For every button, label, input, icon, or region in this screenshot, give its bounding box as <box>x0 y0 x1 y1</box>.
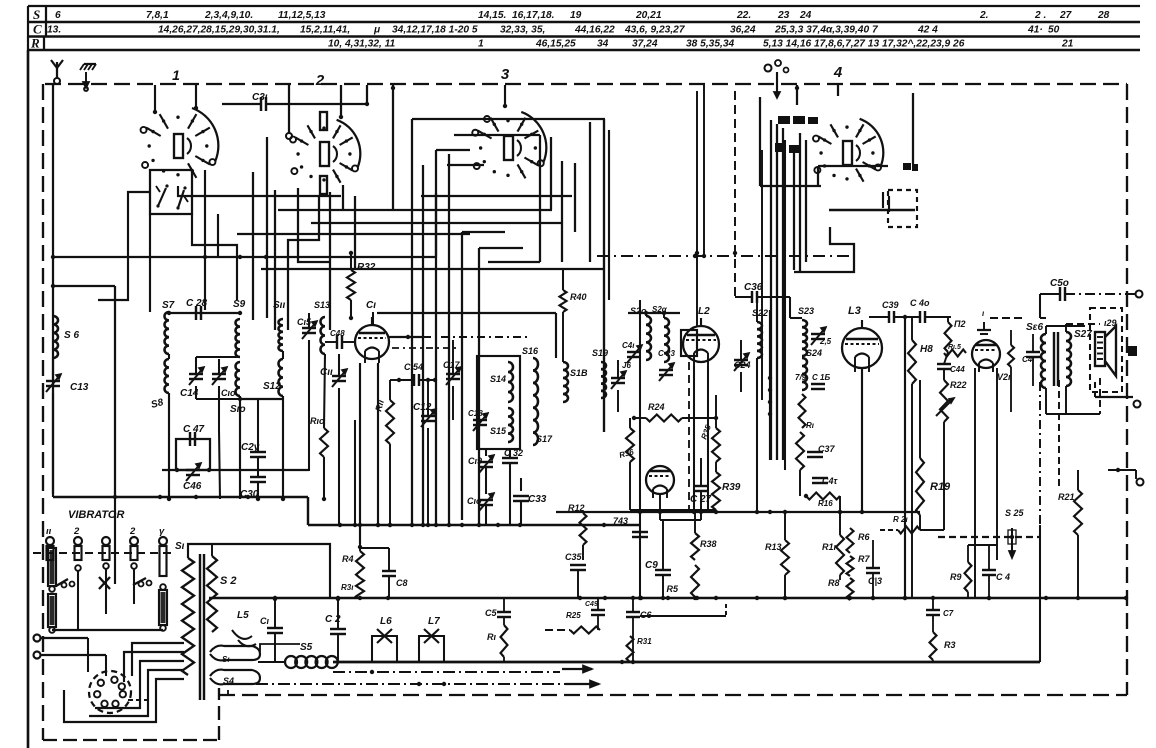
capacitor C3 <box>866 567 880 569</box>
wire antenna lower jog <box>53 285 115 287</box>
trimmer C14 <box>189 373 203 375</box>
resistor R36 <box>626 428 634 462</box>
wire mixer links <box>682 417 716 419</box>
wire nest corner x436 <box>435 193 437 257</box>
vibrator reed bar lower left <box>48 594 56 627</box>
main dashed border bottom <box>219 694 1127 696</box>
svg-text:3: 3 <box>501 66 510 83</box>
wire y471 <box>162 469 309 471</box>
svg-text:Cιo: Cιo <box>467 496 482 506</box>
svg-text:14,15.: 14,15. <box>478 10 506 21</box>
svg-text:S15: S15 <box>490 426 507 436</box>
svg-text:C4τ: C4τ <box>822 476 839 486</box>
svg-text:7,8,1: 7,8,1 <box>146 10 169 21</box>
svg-text:C8: C8 <box>396 578 408 588</box>
vibrator pin stubs <box>103 563 109 569</box>
wire x905 drop <box>904 317 906 598</box>
svg-text:V2ι: V2ι <box>997 372 1011 382</box>
svg-text:R25: R25 <box>566 611 581 620</box>
terminal wafer2 <box>286 133 292 139</box>
svg-text:L6: L6 <box>380 616 392 627</box>
svg-text:C13: C13 <box>70 382 89 393</box>
wire wafer2 stem b <box>340 85 342 117</box>
svg-text:R16: R16 <box>818 499 833 508</box>
resistor R3 <box>930 632 937 660</box>
svg-text:Rι: Rι <box>806 421 815 430</box>
wire S9 down <box>239 396 241 499</box>
svg-text:41·: 41· <box>1027 25 1043 36</box>
switch contact b <box>178 190 184 208</box>
svg-text:C: C <box>33 22 42 37</box>
capacitor C36 <box>751 291 753 303</box>
trimmer C43 <box>627 351 641 353</box>
vibrator bottom link <box>52 629 163 631</box>
svg-text:16,17,18.: 16,17,18. <box>512 10 555 21</box>
resistor R27 <box>898 527 920 534</box>
transformer S27 secondary <box>1066 332 1071 386</box>
trimmer C17 <box>446 373 460 375</box>
resistor R13 <box>781 540 789 575</box>
grid box V2 <box>681 330 697 356</box>
connector box right <box>1128 346 1137 356</box>
svg-text:C5: C5 <box>485 608 497 618</box>
winding S4 loop <box>210 670 260 685</box>
resistor grid V24 <box>1008 345 1014 367</box>
dash-dot feeder 1 <box>333 671 560 673</box>
wire staircase c <box>95 661 184 708</box>
dash-dot feeder 2 <box>256 683 566 685</box>
resistor R7 <box>847 556 854 576</box>
wire right rail x1040 <box>1039 525 1041 662</box>
svg-text:2,5: 2,5 <box>819 337 832 346</box>
vibrator dashed line <box>33 552 172 554</box>
svg-text:C37: C37 <box>818 444 836 454</box>
svg-text:ι29: ι29 <box>1104 318 1117 328</box>
svg-text:S13: S13 <box>314 300 330 310</box>
resistor R14 <box>799 394 806 428</box>
transformer secondary S2 <box>207 556 217 632</box>
coil S15 <box>508 408 513 442</box>
resistor R39 <box>712 472 720 510</box>
svg-text:32,33, 35,: 32,33, 35, <box>500 25 545 36</box>
svg-text:27: 27 <box>1059 10 1073 21</box>
svg-text:C9: C9 <box>645 560 658 571</box>
svg-text:C35: C35 <box>565 552 583 562</box>
coil S19 <box>601 362 606 398</box>
svg-text:R 2ι: R 2ι <box>893 515 908 524</box>
wire staircase a <box>132 643 184 676</box>
volume pot R21 <box>1058 380 1060 490</box>
vertical rail mid <box>639 300 641 598</box>
antenna symbol <box>56 62 58 78</box>
capacitor C32 <box>502 457 518 459</box>
dash link V24 <box>990 317 1023 319</box>
svg-text:R3ι: R3ι <box>341 583 354 592</box>
coil S21 <box>664 318 669 362</box>
resistor R40 <box>560 290 567 312</box>
resistor R32 <box>347 270 355 300</box>
dash link V1 cathode <box>392 347 460 349</box>
capacitor C8 <box>382 570 396 572</box>
svg-text:34: 34 <box>597 39 609 50</box>
resistor R12 <box>580 513 587 545</box>
capacitor C42 <box>812 477 828 479</box>
svg-text:Sι: Sι <box>175 541 185 552</box>
capacitor C48 <box>336 335 338 349</box>
wire c6 link <box>640 615 726 617</box>
wire V1 topcap line <box>377 312 556 314</box>
wire transformer top <box>188 544 330 599</box>
svg-text:43,6, 9,23,27: 43,6, 9,23,27 <box>624 25 686 36</box>
svg-text:L3: L3 <box>848 305 861 317</box>
svg-text:S14: S14 <box>490 374 506 384</box>
supply terminal B <box>34 652 41 659</box>
resistor R6 <box>847 528 854 553</box>
capacitor C34 <box>413 374 415 386</box>
winding S3 loop <box>210 646 260 661</box>
resistor R8 <box>847 578 854 600</box>
svg-text:C 28: C 28 <box>186 298 208 309</box>
svg-text:R19: R19 <box>930 481 951 493</box>
capacitor C50 <box>1059 287 1061 301</box>
svg-text:C46: C46 <box>183 481 202 492</box>
svg-text:Sε6: Sε6 <box>1026 322 1043 333</box>
wire tuner top link <box>169 312 240 314</box>
svg-text:R5: R5 <box>666 584 678 594</box>
svg-text:S23: S23 <box>798 306 814 316</box>
wire L2 leg drops <box>693 366 695 512</box>
resistor R19 <box>916 458 924 515</box>
terminal out low <box>1108 469 1136 471</box>
transformer S26 primary <box>1041 334 1046 388</box>
capacitor C1 <box>267 627 283 629</box>
transformer primary winding <box>182 558 194 675</box>
svg-text:μ: μ <box>373 25 381 36</box>
wafer2 index slot top <box>320 112 327 130</box>
svg-text:C 23: C 23 <box>658 349 675 358</box>
wire staircase b <box>124 652 184 682</box>
svg-text:10, 4,31,32, 11: 10, 4,31,32, 11 <box>328 39 396 50</box>
svg-text:Rι: Rι <box>487 632 496 642</box>
capacitor C27 <box>693 485 709 487</box>
coil S22 <box>757 322 762 358</box>
svg-text:6: 6 <box>55 10 61 21</box>
trimmer C23 <box>659 369 673 371</box>
IF can outline <box>477 356 520 449</box>
svg-text:S7: S7 <box>162 300 175 311</box>
svg-text:C|3: C|3 <box>868 576 882 586</box>
svg-text:R1ι: R1ι <box>822 542 837 552</box>
wire transformer bottoms <box>260 644 300 652</box>
svg-text:C 4: C 4 <box>996 572 1010 582</box>
svg-text:C33: C33 <box>528 494 547 505</box>
terminal pair top <box>765 65 772 72</box>
svg-text:C44: C44 <box>950 365 965 374</box>
wire V1 plate <box>389 336 423 338</box>
wire S8 down <box>168 393 170 499</box>
wire speaker links <box>1045 326 1047 334</box>
vibrator reed bar upper left <box>48 548 56 586</box>
svg-text:R6: R6 <box>858 532 870 542</box>
coil S9b <box>236 362 241 396</box>
capacitor C49 <box>591 609 605 611</box>
svg-text:14,26,27,28,15,29,30,31.1,: 14,26,27,28,15,29,30,31.1, <box>158 25 280 36</box>
trimmer C13 <box>46 380 60 382</box>
wire S13 down <box>324 354 325 428</box>
svg-text:C 1Б: C 1Б <box>812 373 830 382</box>
svg-text:S5: S5 <box>300 642 313 653</box>
main dashed border right <box>1126 84 1128 695</box>
svg-text:C39: C39 <box>882 300 899 310</box>
svg-text:R40: R40 <box>570 292 587 302</box>
svg-text:42 4: 42 4 <box>917 25 938 36</box>
resistor R17 <box>836 535 844 575</box>
wire wafer1 stem a <box>154 85 156 112</box>
svg-text:S9: S9 <box>233 299 246 310</box>
svg-text:C 32: C 32 <box>504 448 523 458</box>
svg-text:Rιo: Rιo <box>310 416 325 426</box>
svg-text:44,16,22: 44,16,22 <box>574 25 615 36</box>
svg-text:C7: C7 <box>943 609 954 618</box>
svg-text:R9: R9 <box>950 572 962 582</box>
resistor R25 <box>570 627 600 634</box>
svg-text:S 2: S 2 <box>220 575 237 587</box>
wire wafer4 right rail <box>912 93 914 164</box>
ground at V24 grid <box>983 322 985 330</box>
wire wafer3 stem <box>504 85 506 106</box>
svg-text:1: 1 <box>478 39 484 50</box>
svg-text:R8: R8 <box>828 578 840 588</box>
resistor R1 <box>501 625 508 657</box>
capacitor C40 <box>919 311 921 323</box>
capacitor C45 <box>632 531 648 533</box>
wire wafer1 stem b <box>195 85 197 108</box>
wire wafer4 link y166 <box>818 165 888 167</box>
wire coil commons <box>354 420 356 525</box>
svg-text:L7: L7 <box>428 616 440 627</box>
wire V1 cathode drop a <box>359 363 361 544</box>
line y662 left segment <box>333 661 620 664</box>
chassis ground top left <box>84 63 96 65</box>
resistor R5 <box>691 565 699 597</box>
tube V diode <box>646 466 674 494</box>
switch wafer 3 <box>521 112 546 163</box>
capacitor C46b <box>1026 351 1040 353</box>
svg-text:11,12,5,13: 11,12,5,13 <box>278 10 326 21</box>
coil S16 <box>533 358 538 445</box>
resistor R16 <box>806 493 840 500</box>
svg-text:S 6: S 6 <box>64 330 79 341</box>
svg-text:ιι: ιι <box>46 526 52 537</box>
resistor R18 <box>908 340 916 384</box>
svg-text:19: 19 <box>570 10 582 21</box>
svg-text:R31: R31 <box>637 637 652 646</box>
svg-text:2.: 2. <box>979 10 989 21</box>
coil S8 <box>165 359 170 393</box>
svg-text:C5o: C5o <box>1050 278 1069 289</box>
capacitor C47 box <box>176 439 210 470</box>
svg-text:Cι: Cι <box>366 300 376 311</box>
dash centerline IF <box>696 91 698 326</box>
svg-text:743: 743 <box>613 516 628 526</box>
wire speaker bottom <box>1099 378 1101 414</box>
wire rails mid2 <box>734 91 736 297</box>
resistor R35 <box>712 428 720 462</box>
wire nest y135 <box>454 134 540 136</box>
svg-text:Sι: Sι <box>222 655 230 664</box>
resistor R10 <box>320 428 328 457</box>
svg-text:VIBRATOR: VIBRATOR <box>68 509 124 521</box>
svg-text:П2: П2 <box>954 319 965 329</box>
svg-text:R: R <box>30 36 40 51</box>
svg-text:Cι: Cι <box>260 616 269 626</box>
resistor R31b <box>627 636 634 662</box>
capacitor C35 <box>570 564 586 566</box>
vibrator box dashed bottom <box>43 739 219 741</box>
svg-text:2 .: 2 . <box>1034 10 1046 21</box>
wire long y223 <box>311 222 562 224</box>
resistor R11 <box>386 400 394 444</box>
svg-text:2: 2 <box>315 72 325 89</box>
svg-text:C 4o: C 4o <box>910 298 930 308</box>
svg-text:L2: L2 <box>698 306 710 317</box>
svg-text:Cιι: Cιι <box>320 367 333 378</box>
svg-text:1: 1 <box>172 67 180 83</box>
svg-text:R22: R22 <box>950 380 967 390</box>
vibrator contact circle left <box>49 586 55 592</box>
resistor R2 <box>945 322 952 352</box>
svg-text:C48: C48 <box>330 329 345 338</box>
trimmer C25 <box>811 333 825 335</box>
wire terminal drops <box>87 638 89 672</box>
wire wafer3 right rails <box>603 119 605 432</box>
svg-text:Sιo: Sιo <box>230 404 246 415</box>
capacitor C2 <box>330 628 346 630</box>
wire V3 drop <box>861 368 863 512</box>
svg-text:C17: C17 <box>443 360 461 370</box>
svg-text:C49: C49 <box>585 601 598 608</box>
trimmer C46 <box>186 469 200 471</box>
dashed trimmer box wafer4 <box>888 190 917 227</box>
svg-text:Sιι: Sιι <box>273 300 285 311</box>
wire if1 bottom bus <box>308 524 640 526</box>
resistor R24 <box>646 415 682 422</box>
trimmer C10x <box>479 499 493 501</box>
coil S13 <box>321 317 326 354</box>
svg-text:20,21: 20,21 <box>635 10 662 21</box>
capacitor C6 <box>626 611 640 613</box>
capacitor C37 <box>807 451 823 453</box>
svg-text:L5: L5 <box>237 610 249 621</box>
svg-text:7/9: 7/9 <box>795 373 807 382</box>
svg-text:2,3,4,9,10.: 2,3,4,9,10. <box>204 10 253 21</box>
wire nest wafer 3 outer <box>412 118 605 120</box>
trimmer C19 <box>479 461 493 463</box>
svg-text:R24: R24 <box>648 402 665 412</box>
wafer2 index slot bottom <box>320 176 327 194</box>
switch wafer 4 <box>860 119 884 167</box>
svg-text:2: 2 <box>129 526 136 537</box>
speaker dashed enclosure <box>1090 308 1122 392</box>
capacitor C7 <box>926 609 940 611</box>
svg-text:Cι9: Cι9 <box>468 456 482 466</box>
capacitor C5 <box>497 611 511 613</box>
capacitor C28 <box>195 306 197 320</box>
wire wafer4 stem b <box>837 85 839 96</box>
node S10 link <box>240 398 283 400</box>
svg-text:R13: R13 <box>765 542 782 552</box>
tube V3 <box>842 328 882 368</box>
trimmer C41 <box>611 377 625 379</box>
svg-text:21: 21 <box>1061 39 1074 50</box>
coil S23 <box>802 320 807 356</box>
tube V1 converter <box>355 325 389 359</box>
capacitor C4 <box>982 569 996 571</box>
terminal out mid <box>1095 396 1133 398</box>
coil S24 <box>802 358 807 390</box>
wire wafer2 nest <box>266 137 268 318</box>
capacitor C30 <box>250 476 266 478</box>
coil S18 <box>563 362 568 402</box>
switch contact a <box>158 188 166 206</box>
speaker S29 <box>1095 332 1105 366</box>
svg-text:S16: S16 <box>522 346 539 356</box>
svg-text:R32: R32 <box>357 262 376 273</box>
svg-text:37,24: 37,24 <box>632 39 658 50</box>
wire wafer2 stem <box>288 85 290 133</box>
wire x115 drop <box>114 497 116 584</box>
wire wafer4 link y210 <box>829 209 915 212</box>
capacitor C31 <box>260 97 262 111</box>
coil S20 <box>646 316 651 360</box>
coil S9 <box>235 319 240 357</box>
wire x393 drop <box>392 85 394 210</box>
svg-text:R3: R3 <box>944 640 956 650</box>
svg-text:S4: S4 <box>223 676 234 686</box>
wire nest under wafer 1 <box>98 192 150 300</box>
capacitor C15b <box>811 383 825 385</box>
trimmer C11 <box>332 375 346 377</box>
dash dot link mid <box>597 255 854 257</box>
outer frame left border <box>27 50 30 748</box>
svg-text:C.54: C.54 <box>404 362 423 372</box>
tube socket bottom left <box>89 671 131 713</box>
capacitor C9 <box>662 520 664 570</box>
resistor R15 <box>796 432 804 470</box>
parts index table <box>28 5 1140 7</box>
svg-text:R38: R38 <box>700 539 717 549</box>
svg-text:2: 2 <box>73 526 80 537</box>
wire s20 s21 tops <box>645 313 647 316</box>
svg-text:S1B: S1B <box>570 368 588 378</box>
resistor R38 <box>694 510 696 533</box>
svg-text:Rι.5: Rι.5 <box>948 344 961 351</box>
svg-text:S12: S12 <box>263 381 281 392</box>
svg-text:Н8: Н8 <box>920 344 933 355</box>
resistor R9 <box>965 562 972 592</box>
coil S7 <box>165 312 170 354</box>
wire wafer4 stem a <box>796 85 798 105</box>
trimmer C15 <box>302 327 316 329</box>
svg-text:S22: S22 <box>752 308 768 318</box>
switch box under wafer 1 <box>150 170 192 214</box>
transformer core lines <box>199 554 201 700</box>
wire socket dash lead <box>128 699 152 701</box>
capacitor C33 <box>513 495 529 497</box>
trimmer C12 <box>421 415 435 417</box>
main B+ bus <box>209 597 1126 600</box>
svg-text:R7: R7 <box>858 554 870 564</box>
